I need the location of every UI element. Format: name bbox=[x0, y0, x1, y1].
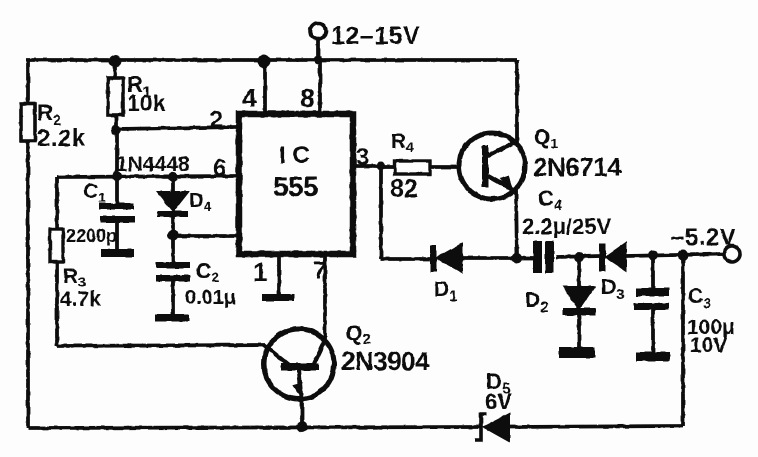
wire: pin 6 row bbox=[57, 176, 236, 177]
svg-text:555: 555 bbox=[273, 171, 318, 202]
transistor Q2 bbox=[264, 329, 334, 399]
svg-text:D1: D1 bbox=[434, 278, 458, 305]
wire: bottom rail left of D5 bbox=[28, 427, 481, 428]
svg-text:D2: D2 bbox=[525, 289, 549, 316]
wire: to D1 bbox=[381, 257, 432, 261]
wire: right drop from output node bbox=[681, 255, 685, 426]
wire: R3 to Q2 base bbox=[57, 345, 265, 346]
ground bar under pin 1 bbox=[262, 294, 294, 301]
resistor R4 bbox=[381, 165, 396, 169]
svg-text:–5.2V: –5.2V bbox=[671, 224, 736, 251]
svg-text:6: 6 bbox=[213, 155, 226, 182]
wire: Q1 collector up bbox=[515, 60, 519, 143]
op IC U1 555 box bbox=[239, 114, 353, 254]
svg-text:10V: 10V bbox=[690, 334, 727, 357]
svg-text:C2: C2 bbox=[196, 260, 219, 285]
diode D3 bbox=[599, 244, 606, 271]
svg-text:2200p: 2200p bbox=[66, 226, 117, 246]
capacitor C1 bbox=[99, 203, 135, 223]
wire: bottom rail right of D5 bbox=[509, 426, 683, 427]
svg-text:10k: 10k bbox=[127, 90, 166, 116]
ground bar under C1 bbox=[101, 249, 134, 257]
wire: pin 7 stub bbox=[323, 254, 327, 344]
svg-text:1N4448: 1N4448 bbox=[116, 153, 190, 176]
capacitor C3 bbox=[651, 255, 655, 289]
resistor R1 bbox=[113, 61, 117, 78]
svg-text:82: 82 bbox=[390, 175, 418, 203]
svg-text:12–15V: 12–15V bbox=[331, 22, 420, 50]
svg-text:0.01μ: 0.01μ bbox=[185, 287, 236, 309]
svg-text:D4: D4 bbox=[189, 190, 211, 214]
svg-text:4: 4 bbox=[242, 83, 257, 113]
svg-text:R3: R3 bbox=[63, 265, 86, 290]
diode D4 bbox=[171, 177, 175, 193]
svg-text:4.7k: 4.7k bbox=[60, 288, 101, 311]
zener diode D5 bbox=[475, 414, 487, 440]
svg-text:Q1: Q1 bbox=[534, 126, 558, 151]
svg-text:2.2k: 2.2k bbox=[37, 125, 86, 152]
supply terminal 12-15V bbox=[310, 23, 326, 39]
svg-text:C1: C1 bbox=[83, 180, 106, 205]
diode D1 bbox=[430, 245, 437, 272]
capacitor C2 bbox=[156, 262, 190, 282]
wire: pin 4 stub bbox=[263, 61, 267, 114]
wire: D4 bottom to C2 bbox=[171, 236, 175, 263]
output terminal -5.2V bbox=[724, 246, 740, 262]
wire: D4 bottom to IC pin5 stub bbox=[173, 234, 236, 238]
svg-text:C4: C4 bbox=[538, 186, 563, 214]
svg-text:2N6714: 2N6714 bbox=[533, 152, 622, 182]
wire: pin3 node drop bbox=[379, 167, 383, 259]
svg-text:Q2: Q2 bbox=[346, 322, 371, 348]
svg-text:IC: IC bbox=[279, 142, 317, 169]
wire: left rail (R2 branch) bbox=[26, 60, 30, 105]
resistor R2 bbox=[21, 104, 35, 141]
svg-text:3: 3 bbox=[356, 144, 369, 171]
transistor Q1 bbox=[459, 133, 525, 199]
svg-text:7: 7 bbox=[313, 257, 326, 284]
wire: pin 1 stub bbox=[277, 254, 281, 295]
svg-text:1: 1 bbox=[253, 257, 267, 287]
ground bar under C2 bbox=[155, 314, 189, 322]
resistor R3 bbox=[55, 177, 59, 230]
diode D2 bbox=[577, 257, 581, 288]
capacitor C4 bbox=[517, 256, 533, 260]
ground bar under D2 bbox=[559, 347, 595, 358]
ground bar under C3 bbox=[636, 352, 670, 361]
svg-text:6V: 6V bbox=[485, 389, 512, 414]
wire: pin 3 stub bbox=[353, 164, 381, 168]
svg-text:D3: D3 bbox=[601, 276, 625, 303]
svg-text:C3: C3 bbox=[688, 285, 712, 312]
wire: pin 2 line bbox=[117, 127, 236, 129]
wire: Q1 emitter down bbox=[516, 189, 517, 258]
svg-text:2N3904: 2N3904 bbox=[341, 346, 430, 376]
svg-text:2.2μ/25V: 2.2μ/25V bbox=[522, 214, 612, 239]
wire: node drop R1 bottom to pin6 row bbox=[115, 130, 119, 204]
svg-text:2: 2 bbox=[210, 106, 223, 132]
wire: pin 8 stub bbox=[318, 60, 322, 114]
svg-text:8: 8 bbox=[300, 83, 314, 113]
wire: top supply rail bbox=[26, 58, 517, 62]
wire: Q2 emitter to bottom rail bbox=[300, 398, 304, 427]
svg-text:R4: R4 bbox=[391, 130, 414, 155]
